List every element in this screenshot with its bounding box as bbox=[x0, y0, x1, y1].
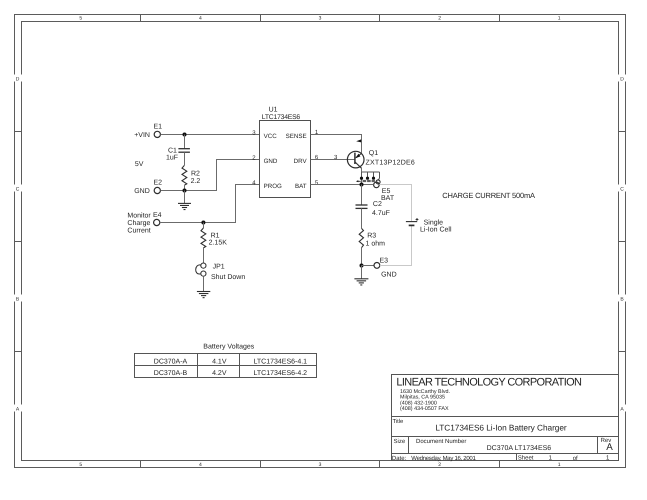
svg-text:Current: Current bbox=[127, 227, 150, 234]
svg-text:5: 5 bbox=[79, 462, 82, 468]
svg-text:Wednesday, May 16, 2001: Wednesday, May 16, 2001 bbox=[411, 455, 476, 462]
svg-text:3: 3 bbox=[319, 462, 322, 468]
svg-text:1: 1 bbox=[558, 462, 561, 468]
battery cell symbol bbox=[406, 218, 419, 225]
svg-text:JP1: JP1 bbox=[213, 264, 225, 271]
gray battery connection path bbox=[379, 185, 411, 266]
svg-text:2.2: 2.2 bbox=[191, 178, 201, 185]
svg-text:CHARGE CURRENT 500mA: CHARGE CURRENT 500mA bbox=[442, 191, 535, 200]
wire E4 to PROG bbox=[160, 185, 260, 223]
wire to E3 bbox=[362, 265, 375, 267]
jumper JP1 Shut Down bbox=[196, 263, 246, 281]
svg-text:C2: C2 bbox=[373, 201, 382, 208]
svg-text:R2: R2 bbox=[191, 171, 200, 178]
svg-text:2: 2 bbox=[438, 16, 441, 22]
svg-text:1uF: 1uF bbox=[166, 154, 178, 161]
svg-text:5: 5 bbox=[79, 16, 82, 22]
svg-text:E4: E4 bbox=[153, 212, 162, 219]
battery voltages table bbox=[135, 343, 317, 378]
svg-text:Date:: Date: bbox=[392, 455, 407, 462]
junction R3/E3/ground bbox=[360, 264, 364, 268]
svg-text:Size: Size bbox=[394, 438, 406, 445]
svg-text:DC370A LT1734ES6: DC370A LT1734ES6 bbox=[487, 445, 552, 452]
junction E4/R1 bbox=[201, 221, 205, 225]
transistor Q1 ZXT13P12DE6 bbox=[347, 150, 414, 168]
svg-text:LTC1734ES6-4.2: LTC1734ES6-4.2 bbox=[254, 370, 308, 377]
svg-text:Battery Voltages: Battery Voltages bbox=[203, 343, 254, 351]
svg-text:LTC1734ES6-4.1: LTC1734ES6-4.1 bbox=[254, 359, 308, 366]
svg-text:DC370A-A: DC370A-A bbox=[154, 359, 188, 366]
svg-text:2.15K: 2.15K bbox=[209, 240, 228, 247]
title block bbox=[392, 375, 619, 461]
svg-text:BAT: BAT bbox=[381, 195, 395, 202]
svg-text:DC370A-B: DC370A-B bbox=[154, 370, 188, 377]
ground below R2 bbox=[178, 191, 191, 210]
capacitor C2 bbox=[356, 185, 390, 229]
node E1 terminal bbox=[134, 124, 162, 140]
svg-text:Single: Single bbox=[424, 218, 444, 226]
svg-text:Monitor: Monitor bbox=[127, 211, 151, 219]
svg-text:of: of bbox=[573, 455, 578, 462]
svg-text:Li-Ion Cell: Li-Ion Cell bbox=[420, 226, 452, 234]
svg-text:LTC1734ES6 Li-Ion Battery Char: LTC1734ES6 Li-Ion Battery Charger bbox=[435, 423, 567, 433]
svg-text:2: 2 bbox=[438, 462, 441, 468]
svg-text:DRV: DRV bbox=[294, 158, 308, 165]
junction VIN/C1 bbox=[183, 133, 187, 137]
svg-text:BAT: BAT bbox=[295, 183, 307, 190]
wire comb to E5 pad bbox=[378, 178, 380, 180]
svg-text:E1: E1 bbox=[154, 124, 163, 131]
svg-text:GND: GND bbox=[134, 188, 150, 195]
node E3 terminal GND bbox=[374, 257, 397, 278]
svg-text:Charge: Charge bbox=[127, 219, 150, 227]
svg-text:4: 4 bbox=[199, 462, 202, 468]
svg-text:(408) 434-0507 FAX: (408) 434-0507 FAX bbox=[400, 406, 449, 412]
wire BAT pin to E5 junction bbox=[311, 184, 374, 186]
resistor R3 bbox=[359, 228, 385, 265]
jumper comb E6 E7 E8 bbox=[362, 172, 380, 178]
junction BAT/collector/C2 bbox=[360, 183, 364, 187]
svg-text:D: D bbox=[620, 77, 624, 83]
E5 hook bbox=[376, 180, 380, 184]
svg-text:SENSE: SENSE bbox=[286, 133, 307, 140]
svg-text:4: 4 bbox=[199, 16, 202, 22]
svg-text:5V: 5V bbox=[135, 161, 144, 168]
svg-text:E5: E5 bbox=[382, 188, 391, 195]
svg-text:1 ohm: 1 ohm bbox=[366, 239, 386, 247]
svg-text:U1: U1 bbox=[269, 107, 278, 114]
op-amp U1 LTC1734ES6 bbox=[260, 107, 311, 198]
node E4 terminal Monitor Charge Current bbox=[127, 211, 161, 234]
svg-text:Sheet: Sheet bbox=[518, 454, 534, 461]
svg-text:GND: GND bbox=[264, 158, 278, 165]
resistor R2 bbox=[182, 165, 200, 190]
wire JP1 to ground bbox=[203, 276, 205, 291]
resistor R1 bbox=[201, 223, 227, 264]
node E5 terminal BAT bbox=[374, 182, 395, 202]
tiny arrow at BAT node bbox=[356, 180, 361, 182]
svg-text:A: A bbox=[606, 442, 613, 453]
svg-text:PROG: PROG bbox=[264, 183, 282, 190]
svg-text:VCC: VCC bbox=[264, 133, 278, 140]
svg-text:Q1: Q1 bbox=[369, 150, 378, 157]
node E2 terminal GND bbox=[134, 180, 162, 196]
wire E2 to GND pin bbox=[161, 160, 260, 191]
svg-text:3: 3 bbox=[319, 16, 322, 22]
wire comb to BAT junction bbox=[361, 178, 363, 184]
junction E2/R2/ground bbox=[183, 189, 187, 193]
emitter current arrow bbox=[356, 139, 361, 142]
svg-text:ZXT13P12DE6: ZXT13P12DE6 bbox=[366, 160, 415, 167]
junction dots on comb bbox=[360, 177, 363, 180]
tiny labels E6 E7 E8 bbox=[363, 180, 375, 182]
wire DRV to Q1 base bbox=[311, 159, 355, 161]
svg-text:C: C bbox=[620, 187, 624, 193]
svg-text:4.2V: 4.2V bbox=[212, 370, 227, 377]
svg-text:C1: C1 bbox=[168, 147, 177, 154]
svg-text:Title: Title bbox=[393, 418, 404, 425]
ground below R3 bbox=[354, 266, 368, 285]
wire Q1 collector down bbox=[361, 168, 363, 172]
svg-text:GND: GND bbox=[381, 271, 397, 278]
svg-text:Document Number: Document Number bbox=[416, 438, 466, 445]
wire SENSE to Q1 emitter bbox=[311, 135, 362, 154]
svg-text:C: C bbox=[16, 187, 20, 193]
ground below JP1 bbox=[197, 292, 210, 298]
svg-text:LINEAR TECHNOLOGY CORPORATION: LINEAR TECHNOLOGY CORPORATION bbox=[396, 377, 582, 389]
svg-text:R3: R3 bbox=[367, 232, 376, 239]
svg-text:Shut Down: Shut Down bbox=[211, 273, 245, 281]
capacitor C1 bbox=[166, 135, 190, 166]
svg-text:E3: E3 bbox=[380, 257, 389, 264]
svg-text:R1: R1 bbox=[211, 232, 220, 239]
svg-text:D: D bbox=[16, 77, 20, 83]
svg-text:4.1V: 4.1V bbox=[212, 359, 227, 366]
svg-text:4.7uF: 4.7uF bbox=[372, 210, 390, 217]
svg-text:1: 1 bbox=[558, 16, 561, 22]
wire VIN to VCC bbox=[161, 134, 260, 136]
svg-text:E2: E2 bbox=[154, 180, 163, 187]
svg-text:+VIN: +VIN bbox=[134, 132, 150, 139]
